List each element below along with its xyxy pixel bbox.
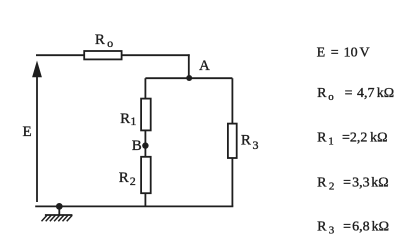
value label E = 10 V (317, 46, 370, 61)
svg-text:R: R (119, 170, 129, 186)
svg-text:R: R (317, 86, 327, 101)
wire bottom rail (35, 205, 233, 207)
resistor Ro (84, 51, 121, 59)
svg-text:R: R (317, 220, 327, 235)
svg-text:kΩ: kΩ (377, 86, 394, 101)
svg-text:=: = (343, 176, 351, 191)
value label Ro = 4,7 kOhm (317, 86, 394, 103)
resistor R1 (141, 99, 151, 131)
svg-text:R: R (120, 111, 130, 127)
svg-text:1: 1 (130, 114, 136, 128)
svg-text:o: o (328, 91, 334, 103)
svg-text:2: 2 (329, 180, 335, 192)
svg-text:2: 2 (130, 174, 136, 188)
resistor R2 (141, 157, 151, 193)
svg-text:=: = (342, 131, 350, 146)
svg-text:1: 1 (328, 135, 334, 147)
source arrow for E (32, 61, 42, 203)
svg-text:R: R (317, 131, 327, 146)
svg-text:2,2: 2,2 (350, 131, 368, 146)
svg-text:B: B (132, 138, 142, 154)
wire left branch down to R1 (144, 78, 146, 99)
svg-text:3: 3 (253, 138, 259, 152)
svg-text:3: 3 (329, 224, 335, 236)
svg-text:kΩ: kΩ (371, 176, 388, 191)
value label R1 = 2,2 kOhm (317, 131, 387, 148)
value label R3 = 6,8 kOhm (317, 220, 389, 237)
svg-text:E: E (317, 46, 326, 61)
svg-text:4,7: 4,7 (357, 86, 375, 101)
svg-text:R: R (317, 176, 327, 191)
svg-text:6,8: 6,8 (352, 220, 370, 235)
wire inner horizontal through node A (145, 77, 232, 79)
wire right branch vertical (231, 78, 233, 206)
svg-text:o: o (107, 36, 113, 50)
svg-text:10: 10 (344, 46, 358, 61)
wire vertical drop into node A (188, 54, 190, 78)
svg-text:=: = (345, 86, 353, 101)
node A (186, 75, 192, 81)
label R1 (120, 111, 136, 128)
label Ro (95, 32, 113, 50)
value label R2 = 3,3 kOhm (317, 176, 389, 193)
svg-text:kΩ: kΩ (370, 131, 387, 146)
wire top horizontal from source to corner above node A (36, 54, 190, 56)
svg-text:A: A (199, 58, 210, 74)
ground (42, 203, 73, 221)
resistor R3 (228, 124, 237, 158)
wire R1 to R2 through node B (144, 130, 146, 157)
svg-text:=: = (343, 220, 351, 235)
svg-text:V: V (360, 46, 370, 61)
node B (142, 142, 148, 148)
svg-text:E: E (23, 124, 32, 140)
svg-text:kΩ: kΩ (372, 220, 389, 235)
svg-text:R: R (241, 133, 251, 149)
label R2 (119, 170, 136, 188)
svg-text:R: R (95, 32, 105, 48)
svg-text:=: = (331, 46, 339, 61)
label R3 (241, 133, 259, 152)
wire R2 to bottom rail (144, 193, 146, 206)
svg-text:3,3: 3,3 (352, 176, 370, 191)
